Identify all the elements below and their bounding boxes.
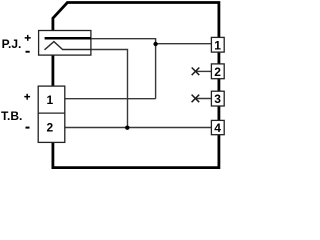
wire B: P.J. - output down to node B bbox=[91, 50, 128, 128]
junction node B bbox=[125, 126, 129, 130]
T.B. divider bbox=[38, 112, 65, 114]
plus sign T.B. bbox=[24, 96, 30, 98]
svg-text:3: 3 bbox=[214, 92, 221, 106]
junction node A bbox=[153, 42, 157, 46]
wire: T.B. pin 1 to node A vertical bbox=[65, 98, 156, 100]
terminal block box T.B. bbox=[38, 86, 65, 142]
wire: node A to terminal 1 bbox=[156, 43, 212, 45]
terminal 1 box bbox=[211, 37, 224, 52]
thick bar of P.J. symbol bbox=[45, 37, 91, 40]
terminal 2 box bbox=[211, 64, 224, 79]
minus sign P.J. bbox=[26, 51, 30, 53]
X mark terminal 2 bbox=[192, 68, 200, 76]
svg-text:4: 4 bbox=[214, 121, 221, 135]
svg-text:T.B.: T.B. bbox=[1, 109, 22, 123]
svg-text:P.J.: P.J. bbox=[2, 37, 22, 51]
wire A: P.J. + output to node A bbox=[91, 39, 156, 99]
X mark terminal 3 bbox=[192, 95, 200, 103]
svg-text:2: 2 bbox=[214, 65, 221, 79]
surge protector box P.J. bbox=[39, 31, 91, 56]
minus sign T.B. bbox=[26, 127, 30, 129]
enclosure border with chamfered top-left corner bbox=[53, 3, 219, 168]
plus sign P.J. bbox=[25, 37, 31, 39]
svg-text:2: 2 bbox=[46, 120, 53, 134]
zigzag of P.J. symbol bbox=[45, 42, 91, 50]
svg-text:1: 1 bbox=[214, 38, 221, 52]
terminal 4 box bbox=[211, 120, 224, 134]
terminal 3 box bbox=[211, 91, 224, 106]
wire: T.B. pin 2 to terminal 4 bbox=[65, 127, 212, 129]
stub wire terminal 2 bbox=[196, 70, 212, 72]
stub wire terminal 3 bbox=[195, 98, 211, 100]
svg-text:1: 1 bbox=[46, 93, 53, 107]
